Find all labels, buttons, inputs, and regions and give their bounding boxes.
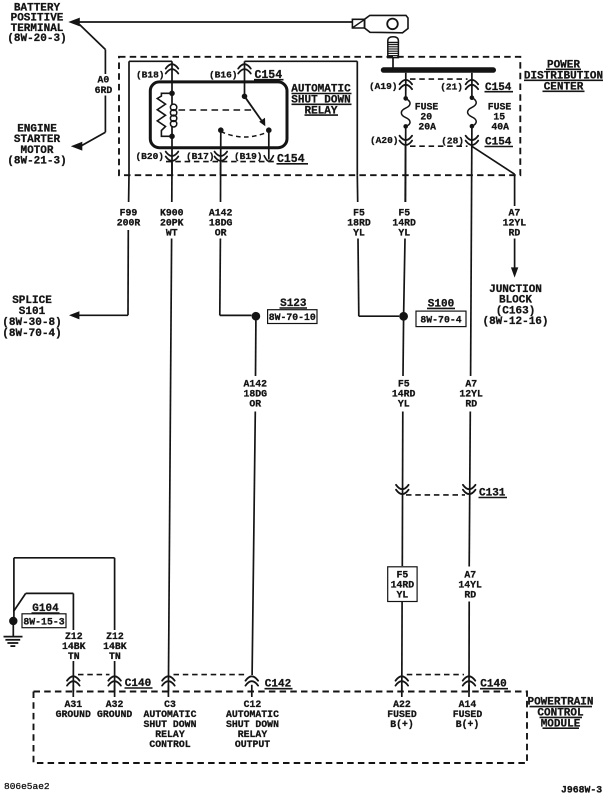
pin (28) bbox=[441, 136, 478, 147]
label box 8W-70-10 bbox=[268, 310, 317, 324]
svg-text:8W-70-4: 8W-70-4 bbox=[420, 314, 461, 325]
svg-text:RD: RD bbox=[509, 228, 521, 239]
relay coil resistor bbox=[157, 93, 172, 136]
svg-text:TN: TN bbox=[109, 651, 121, 662]
label F99 200R bbox=[117, 207, 141, 228]
label C131 bbox=[479, 488, 508, 500]
relay linkage dashed line bbox=[179, 109, 253, 111]
relay: automatic shut down relay box bbox=[150, 82, 287, 148]
ground G104 bbox=[4, 617, 23, 646]
wire A7 branch to junction block bbox=[472, 146, 515, 206]
bus bar B+ bbox=[381, 67, 496, 73]
wire F99 bbox=[128, 175, 129, 315]
wire bus bar to fuse 20 bbox=[405, 73, 407, 99]
label POWER DISTRIBUTION CENTER bbox=[524, 60, 603, 94]
label C142 bbox=[265, 679, 293, 691]
svg-text:YL: YL bbox=[398, 399, 410, 410]
pin (21) bbox=[440, 80, 478, 93]
svg-text:OR: OR bbox=[249, 399, 261, 410]
wire bus bar to fuse 15 bbox=[471, 73, 473, 98]
PCM pin stubs bbox=[73, 685, 469, 697]
svg-text:GROUND: GROUND bbox=[97, 709, 132, 720]
pin (B16) bbox=[209, 64, 251, 80]
relay contact node B17 bbox=[218, 127, 224, 133]
svg-text:WT: WT bbox=[166, 228, 178, 239]
wire A31 to PCM bbox=[72, 661, 74, 692]
svg-text:(B20): (B20) bbox=[135, 151, 164, 162]
svg-text:J968W-3: J968W-3 bbox=[561, 785, 602, 795]
relay coil node B18 bbox=[169, 91, 175, 97]
svg-text:806e5ae2: 806e5ae2 bbox=[4, 781, 50, 792]
svg-text:40A: 40A bbox=[491, 122, 509, 133]
wire B16 feed routing to F5 bbox=[245, 61, 358, 175]
svg-text:(8W-21-3): (8W-21-3) bbox=[7, 156, 66, 168]
connector C154 bottom dashed line bbox=[166, 161, 274, 163]
svg-text:(28): (28) bbox=[441, 136, 464, 147]
battery eyelet terminal bbox=[365, 15, 409, 32]
relay switch arm bbox=[245, 96, 266, 126]
svg-text:B(+): B(+) bbox=[390, 719, 414, 730]
svg-text:GROUND: GROUND bbox=[56, 709, 91, 720]
relay coil node B20 bbox=[169, 134, 175, 140]
label FUSE 15 40A bbox=[488, 102, 512, 133]
wire A0 6RD branch to engine starter motor bbox=[71, 25, 106, 151]
wire relay B17 to connector bbox=[220, 130, 222, 175]
label C140 right bbox=[480, 679, 508, 691]
svg-text:(A20): (A20) bbox=[370, 135, 399, 146]
label AUTOMATIC SHUT DOWN RELAY bbox=[291, 84, 351, 118]
label box 8W-70-4 bbox=[416, 311, 466, 327]
svg-text:A0: A0 bbox=[98, 75, 110, 86]
wire A7 to PCM bbox=[468, 602, 470, 692]
wire B18 feed routing to F99 bbox=[129, 61, 172, 175]
wire Z12 A32 ground routing bbox=[14, 558, 115, 630]
svg-text:CONTROL: CONTROL bbox=[149, 739, 190, 750]
pin (A20) bbox=[370, 135, 412, 146]
wire relay B20 to connector bbox=[171, 136, 173, 175]
label box F5 14RD YL bbox=[388, 567, 417, 602]
svg-text:RD: RD bbox=[465, 399, 477, 410]
pin (A19) bbox=[369, 80, 412, 92]
fuse F15 bbox=[468, 95, 477, 128]
label POWERTRAIN CONTROL MODULE bbox=[527, 697, 593, 731]
splice S100 bbox=[399, 312, 408, 321]
wire F5 to PCM bbox=[401, 602, 403, 692]
svg-text:(B17): (B17) bbox=[186, 151, 215, 162]
connector C154 fuse bottom label bbox=[485, 137, 514, 149]
svg-text:(21): (21) bbox=[440, 82, 463, 93]
connector C154 bottom label bbox=[277, 153, 309, 166]
label A0 6RD bbox=[95, 75, 113, 97]
wire A142 upper bbox=[220, 162, 252, 315]
label G104 bbox=[32, 603, 60, 615]
svg-text:(8W-20-3): (8W-20-3) bbox=[7, 33, 66, 45]
svg-text:YL: YL bbox=[398, 228, 410, 239]
splice S123 bbox=[252, 312, 261, 321]
Powertrain Control Module dashed box bbox=[34, 692, 528, 764]
pin (B18) bbox=[136, 64, 178, 80]
svg-text:RD: RD bbox=[464, 590, 476, 601]
svg-text:(A19): (A19) bbox=[369, 81, 398, 92]
svg-text:TN: TN bbox=[68, 651, 80, 662]
svg-text:(8W-70-4): (8W-70-4) bbox=[2, 328, 61, 340]
wire relay B19 stub bbox=[264, 130, 274, 161]
svg-text:OUTPUT: OUTPUT bbox=[235, 739, 270, 750]
wire A7 mid bbox=[469, 412, 470, 567]
node JUNCTION BLOCK label bbox=[482, 284, 548, 328]
connector C154 top label bbox=[254, 69, 284, 82]
label S100 bbox=[427, 298, 455, 310]
relay coil winding bbox=[170, 93, 176, 136]
label box 8W-15-3 bbox=[22, 614, 66, 628]
node SPLICE S101 label bbox=[2, 295, 61, 340]
svg-text:OR: OR bbox=[215, 228, 227, 239]
relay contact travel dashed arc bbox=[221, 132, 269, 138]
wire fuse 20 to A20 bbox=[405, 126, 407, 202]
svg-text:(B18): (B18) bbox=[136, 70, 165, 81]
wire A0 6RD to battery (arrow) bbox=[68, 18, 352, 27]
svg-text:B(+): B(+) bbox=[456, 719, 480, 730]
node ENGINE STARTER MOTOR label bbox=[7, 124, 66, 168]
label C140 left bbox=[125, 678, 153, 690]
svg-text:YL: YL bbox=[397, 590, 409, 601]
svg-text:20A: 20A bbox=[418, 122, 436, 133]
wire A7 to junction block with arrow bbox=[511, 239, 518, 278]
terminal stud (bolt) bbox=[388, 37, 399, 58]
wire Z12 A31 ground routing bbox=[14, 593, 74, 630]
wire stud to bus bar bbox=[392, 58, 394, 68]
svg-text:8W-70-10: 8W-70-10 bbox=[269, 312, 316, 323]
fuse F20 bbox=[401, 96, 410, 129]
svg-text:YL: YL bbox=[353, 228, 365, 239]
connector C131 bbox=[396, 485, 476, 495]
svg-text:200R: 200R bbox=[117, 217, 141, 228]
connector C154 fuse top label bbox=[485, 82, 514, 94]
connector C140 left bbox=[67, 675, 121, 686]
connector C140/C142 chevrons bbox=[162, 675, 258, 686]
wire B16 chevron into relay switch bbox=[244, 61, 246, 96]
wire K900 bbox=[168, 162, 172, 692]
svg-text:6RD: 6RD bbox=[95, 85, 113, 96]
wire F5 14RD YL upper bbox=[404, 146, 406, 316]
svg-text:8W-15-3: 8W-15-3 bbox=[23, 616, 64, 627]
wire F5 14RD YL mid bbox=[402, 316, 403, 566]
fuse block dashed lines bbox=[410, 79, 468, 146]
wire B18 chevron into relay coil bbox=[171, 61, 173, 93]
svg-text:(8W-12-16): (8W-12-16) bbox=[482, 316, 548, 328]
connector C140 right bbox=[396, 675, 476, 686]
pin (B17) bbox=[186, 151, 227, 162]
label S123 bbox=[280, 298, 308, 310]
label FUSE 20 20A bbox=[415, 102, 439, 133]
wire fuse 15 down (A7) bbox=[471, 126, 472, 376]
wire A142 lower bbox=[252, 321, 256, 676]
relay switch common node B16 bbox=[242, 94, 248, 100]
svg-text:(B16): (B16) bbox=[209, 70, 238, 81]
pin (B19) bbox=[234, 151, 263, 162]
wire A32 to PCM bbox=[114, 661, 116, 692]
wire F5 18RD YL bbox=[357, 175, 399, 316]
relay contact node B19 bbox=[266, 127, 272, 133]
Power Distribution Center dashed box bbox=[119, 57, 520, 175]
node BATTERY POSITIVE TERMINAL label bbox=[7, 2, 66, 45]
svg-text:(B19): (B19) bbox=[234, 151, 263, 162]
splice S101 arrow bbox=[69, 311, 128, 319]
pin (B20) bbox=[135, 151, 178, 162]
eyelet terminal crimp bbox=[352, 19, 364, 28]
